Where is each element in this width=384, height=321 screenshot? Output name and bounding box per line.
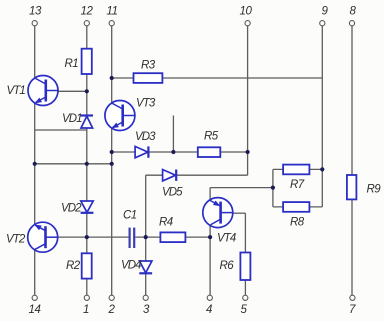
svg-text:C1: C1 <box>123 210 137 222</box>
svg-text:R3: R3 <box>141 59 156 71</box>
svg-text:11: 11 <box>106 6 117 18</box>
svg-text:R8: R8 <box>290 217 305 229</box>
svg-text:VT2: VT2 <box>6 234 26 246</box>
svg-text:VT1: VT1 <box>7 85 26 97</box>
svg-text:VD4: VD4 <box>121 260 141 272</box>
svg-text:VD3: VD3 <box>135 131 156 143</box>
svg-text:R1: R1 <box>65 58 79 70</box>
svg-text:R5: R5 <box>204 130 219 142</box>
svg-text:8: 8 <box>350 6 357 18</box>
svg-text:VT3: VT3 <box>136 98 156 110</box>
svg-text:14: 14 <box>29 304 41 316</box>
svg-text:7: 7 <box>349 304 356 316</box>
svg-text:VD5: VD5 <box>162 187 183 199</box>
svg-text:5: 5 <box>241 304 248 316</box>
svg-text:R4: R4 <box>159 217 173 229</box>
svg-text:13: 13 <box>29 6 42 18</box>
svg-text:12: 12 <box>81 6 94 18</box>
svg-text:VT4: VT4 <box>217 232 236 244</box>
svg-text:10: 10 <box>240 6 253 18</box>
svg-text:4: 4 <box>206 304 212 316</box>
svg-text:3: 3 <box>143 304 150 316</box>
svg-text:2: 2 <box>108 304 116 316</box>
svg-text:R9: R9 <box>367 184 382 196</box>
svg-text:VD1: VD1 <box>62 113 82 125</box>
svg-text:1: 1 <box>83 304 89 316</box>
svg-text:9: 9 <box>322 6 329 18</box>
svg-text:R7: R7 <box>290 179 305 191</box>
svg-text:R6: R6 <box>220 260 235 272</box>
svg-text:VD2: VD2 <box>61 203 82 215</box>
svg-text:R2: R2 <box>66 260 81 272</box>
